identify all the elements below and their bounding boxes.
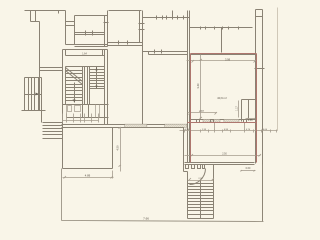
svg-text:40,9 m²: 40,9 m² xyxy=(217,96,227,100)
left flight center with arrow xyxy=(74,83,76,103)
svg-text:2.87: 2.87 xyxy=(199,110,204,113)
left wall B xyxy=(65,11,67,45)
svg-text:1.17: 1.17 xyxy=(236,106,239,111)
landing below terrace wall xyxy=(184,128,188,181)
main dim line y130.8 xyxy=(180,123,278,133)
room top black line xyxy=(191,54,256,56)
door leaves in landing xyxy=(68,106,72,112)
room2 bottom wall xyxy=(108,43,143,46)
dim line y156 xyxy=(185,154,262,157)
tick on wall A xyxy=(58,11,60,14)
corridor lines into stairwell xyxy=(40,68,63,71)
dim line inside room bottom xyxy=(188,112,218,115)
svg-text:3.98: 3.98 xyxy=(225,57,231,61)
right flight treads xyxy=(90,70,105,89)
stairwell right wall pair xyxy=(105,50,108,125)
room1 bottom wall xyxy=(66,45,108,47)
room1 interior wall xyxy=(75,33,105,35)
flight divider walls xyxy=(85,67,88,105)
stairwell top band xyxy=(63,50,108,56)
wall F xyxy=(221,28,223,53)
corridor wall pair xyxy=(143,52,188,55)
dim line y170 xyxy=(241,170,256,172)
svg-text:4.89: 4.89 xyxy=(85,174,91,178)
wall C vertical xyxy=(39,22,41,111)
room2 right wall pair xyxy=(140,11,143,128)
red highlighted room outline xyxy=(188,54,257,163)
svg-text:7.66: 7.66 xyxy=(143,216,149,220)
door jamb connectors xyxy=(66,22,75,26)
stairwell left wall xyxy=(62,50,64,169)
door swing arc xyxy=(190,169,206,185)
building bottom wall left part xyxy=(62,125,184,128)
step to room1 xyxy=(66,44,75,46)
stairwell landing xyxy=(63,104,109,106)
bottom exterior stair xyxy=(188,178,215,181)
side stair center line xyxy=(25,94,42,96)
svg-text:2.50: 2.50 xyxy=(222,154,227,156)
svg-text:0.60: 0.60 xyxy=(246,167,251,170)
terrace dim bottom xyxy=(63,127,122,179)
svg-text:1.64: 1.64 xyxy=(82,53,87,55)
top-right dim wall y17.5 xyxy=(143,17,190,19)
window wall of big room xyxy=(190,119,256,121)
side stair (exterior, upper left) xyxy=(22,78,46,111)
faint extension line right xyxy=(277,8,279,131)
stair flight top cap xyxy=(66,66,105,68)
chimney notch on wall A xyxy=(31,11,40,22)
wall pair E xyxy=(188,11,190,163)
svg-text:0.55: 0.55 xyxy=(248,119,253,122)
overall dim extension left xyxy=(62,165,264,222)
terrace rectangle xyxy=(63,128,113,169)
right flight center xyxy=(96,67,98,89)
left flight treads xyxy=(66,71,83,101)
wall pair D xyxy=(105,11,108,47)
left flight sides xyxy=(66,67,83,105)
lower-right terrace bottom wall xyxy=(185,163,255,165)
room1 xyxy=(75,15,108,17)
niche bottom-right of room xyxy=(242,100,257,122)
room interior dim line xyxy=(187,55,257,120)
room2 xyxy=(109,10,142,12)
svg-text:3.43: 3.43 xyxy=(196,83,200,89)
svg-text:4.50: 4.50 xyxy=(116,145,120,151)
lower outside stair treads xyxy=(43,123,63,139)
wall y27.7 xyxy=(190,27,253,29)
small dim chain above wall xyxy=(63,114,99,123)
cut diagonals xyxy=(66,68,83,85)
right wall pair G xyxy=(256,10,263,222)
top outer wall A xyxy=(25,10,66,12)
